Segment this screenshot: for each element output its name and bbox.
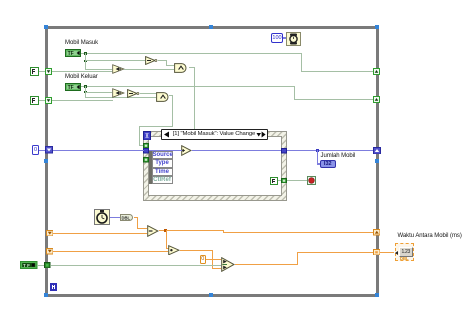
- wire F2 to left SR2: [39, 100, 45, 101]
- wire AND2 left along structure top: [139, 126, 173, 127]
- event data node Source: [152, 151, 173, 159]
- wire junction right: [166, 230, 224, 231]
- wire into feedback node 1: [85, 69, 112, 70]
- wire AND2 down to left tunnel: [139, 126, 140, 145]
- wire F1 to left SR1: [39, 71, 45, 72]
- wire 0 to select: [206, 259, 221, 260]
- while loop selection handles: [44, 25, 48, 29]
- wire Mobil Masuk to right SR (top run): [81, 53, 301, 54]
- numeric constant 0 (orange): [200, 255, 207, 265]
- tunnel green solid on loop border: [44, 262, 51, 269]
- blue wire inside structure to increment: [149, 150, 182, 152]
- tunnel orange on loop border: [373, 249, 381, 256]
- not gate 1: [145, 56, 158, 65]
- wire AND1 down to event structure: [194, 67, 195, 129]
- junction node orange: [164, 229, 167, 232]
- wire vertical down at x300: [301, 53, 302, 72]
- numeric constant 100: [271, 33, 283, 43]
- tick count (ms) clock: [94, 209, 110, 225]
- subtract node: [147, 225, 159, 237]
- junction node blue: [316, 149, 319, 152]
- boolean constant F1: [30, 67, 39, 76]
- wire to NOT1: [85, 60, 145, 61]
- wire Mobil Keluar top run to right: [81, 86, 295, 87]
- loop condition terminal (stop): [307, 176, 316, 185]
- shift register left green 2: [45, 97, 52, 104]
- wire branch down: [85, 53, 86, 61]
- wire tunnel to indicator: [380, 252, 394, 253]
- tunnel green on structure right: [281, 178, 287, 184]
- blue wire drop to indicator: [317, 150, 319, 165]
- svg-text:TF: TF: [67, 85, 73, 91]
- wire to feedback2: [85, 92, 112, 93]
- wire vertical down at x294: [294, 86, 295, 100]
- junction node A1: [84, 52, 87, 55]
- wire left SR2 to feedback2 init: [52, 100, 114, 101]
- wire NOT1 out: [158, 60, 167, 61]
- wire to AND2 lower input: [85, 97, 156, 98]
- wire NOT2 out to AND2: [140, 93, 157, 94]
- numeric constant 0 (blue): [32, 145, 39, 155]
- event structure timeout terminal: [143, 131, 151, 141]
- indicator Waktu Antara Mobil (ms): [395, 243, 415, 261]
- wire SR2 orange to multiply: [53, 251, 168, 252]
- svg-text:DBL: DBL: [122, 215, 131, 220]
- event data node Type: [152, 159, 173, 167]
- junction node A2: [84, 60, 87, 63]
- shift register right orange: [373, 229, 381, 236]
- wire subtract out: [159, 230, 166, 231]
- shift register right blue: [373, 147, 381, 155]
- wire 100 to wait: [283, 37, 286, 39]
- wire to right shift register 2: [294, 99, 373, 100]
- blue wire SR to event structure: [53, 150, 144, 152]
- event data node CtlRef: [152, 176, 173, 184]
- blue wire to right SR: [287, 150, 374, 152]
- and gate 2: [156, 92, 171, 102]
- wire branch down to feedback1: [85, 60, 86, 70]
- tunnel blue on structure left: [143, 148, 149, 154]
- junction node B2: [84, 91, 87, 94]
- increment node: [181, 145, 192, 156]
- while loop: [45, 26, 379, 297]
- wire 0 to blue SR: [39, 150, 45, 152]
- wire junction down: [166, 230, 167, 248]
- wire TF const to tunnel: [38, 265, 45, 266]
- label Jumlah Mobil: [321, 153, 356, 159]
- wire AND2 down: [172, 95, 173, 127]
- label Mobil Keluar: [65, 74, 98, 80]
- wire multiply out: [180, 250, 213, 251]
- event data node Time: [152, 168, 173, 176]
- wire to right orange SR: [223, 232, 373, 233]
- boolean control terminal Mobil Masuk: [65, 49, 81, 57]
- boolean control terminal Mobil Keluar: [65, 83, 81, 91]
- wire F to tunnel: [278, 180, 281, 181]
- multiply node: [168, 245, 180, 256]
- wire select out: [235, 264, 298, 265]
- wire tunnel to loop condition: [287, 180, 308, 181]
- wire left SR1 to feedback1 init: [52, 71, 113, 72]
- wire AND1 out: [189, 67, 195, 68]
- wire branch down under gates: [85, 92, 86, 98]
- tunnel green on structure left lower: [143, 157, 149, 163]
- event structure: [143, 131, 287, 201]
- wire TF to select: [51, 265, 221, 266]
- wire clock to DBL: [110, 217, 120, 219]
- wire feedback1 out to AND1: [124, 69, 174, 70]
- feedback node 2: [112, 88, 125, 98]
- select node: [221, 257, 235, 272]
- shift register right green 2: [373, 96, 380, 103]
- shift register left orange 1: [46, 230, 54, 237]
- feedback node 1: [112, 64, 125, 74]
- label Waktu Antara Mobil (ms): [398, 233, 462, 239]
- svg-text:TF: TF: [67, 51, 73, 57]
- shift register left green 1: [45, 68, 52, 75]
- tunnel green on structure left (from AND2): [143, 143, 149, 149]
- wire to right shift register 1: [301, 71, 373, 72]
- blue wire increment out: [192, 150, 282, 152]
- shift register right green 1: [373, 68, 380, 75]
- wire into green tunnel: [139, 145, 144, 146]
- wire AND2 out: [169, 95, 172, 96]
- event structure selector pill: [161, 129, 268, 140]
- not gate 2: [127, 89, 140, 98]
- iteration terminal i: [50, 283, 58, 291]
- shift register left orange 2: [46, 248, 54, 255]
- tunnel blue on structure right: [281, 148, 287, 154]
- wire branch down: [85, 86, 86, 92]
- boolean constant TF (true): [20, 261, 38, 269]
- wait (ms) function: [286, 32, 301, 46]
- svg-text:T F: T F: [23, 262, 30, 267]
- wire DBL out: [134, 217, 137, 218]
- wire SR1 orange to subtract: [53, 233, 147, 234]
- boolean constant F (stop): [270, 177, 278, 185]
- shift register left blue: [45, 146, 53, 154]
- and gate 1: [174, 63, 189, 73]
- event data node spine: [149, 151, 152, 184]
- label Mobil Masuk: [65, 40, 98, 46]
- indicator terminal I32 Jumlah Mobil: [320, 160, 337, 169]
- boolean constant F2: [30, 96, 39, 105]
- event structure inner area: [148, 136, 283, 197]
- to-double conversion DBL: [120, 214, 134, 221]
- junction node B1: [84, 85, 87, 88]
